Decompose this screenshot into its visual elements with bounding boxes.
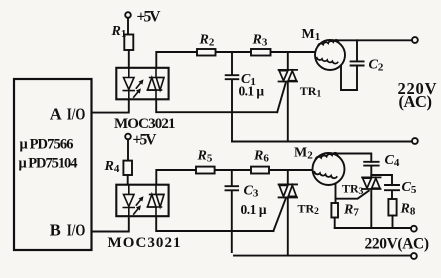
svg-text:A: A [50, 104, 62, 123]
svg-text:MOC3021: MOC3021 [114, 116, 176, 132]
svg-text:MOC3021: MOC3021 [108, 235, 181, 251]
svg-text:+5V: +5V [137, 9, 162, 26]
svg-text:B: B [50, 220, 61, 239]
svg-text:I/O: I/O [67, 220, 86, 239]
svg-text:μ PD75104: μ PD75104 [19, 155, 78, 171]
svg-text:220V(AC): 220V(AC) [365, 235, 430, 252]
svg-text:(AC): (AC) [399, 92, 433, 111]
svg-text:+5V: +5V [133, 132, 158, 149]
svg-text:μ PD7566: μ PD7566 [20, 136, 74, 152]
svg-text:0.1 μ: 0.1 μ [241, 202, 267, 217]
svg-text:I/O: I/O [67, 104, 86, 123]
